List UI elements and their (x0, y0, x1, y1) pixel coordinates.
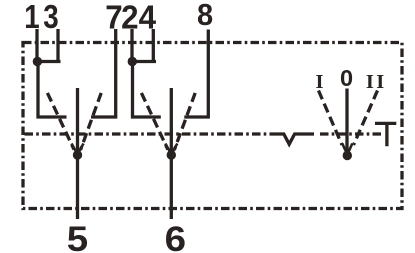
pole 1 movable contact position I (dashed) (47, 93, 74, 150)
pole 1 movable contact position II (dashed) (81, 93, 102, 150)
wire: pole 2 left fixed contact arm (133, 62, 161, 118)
actuator pivot dot (343, 151, 352, 160)
svg-text:6: 6 (165, 219, 186, 253)
detent symbol V-notch on coupling line (276, 134, 315, 144)
junction dot terminals 1-3 (33, 57, 42, 66)
svg-text:5: 5 (67, 219, 88, 253)
svg-text:I: I (316, 71, 324, 93)
terminal 4 lead (152, 29, 155, 63)
pole 1 pivot dot (73, 150, 82, 159)
wire: pole 1 movable contact to terminal 5 (76, 88, 79, 219)
svg-text:II: II (366, 71, 387, 93)
wire bridging terminals 1-3 (37, 60, 61, 63)
wire: pole 1 left fixed contact arm (38, 62, 67, 118)
wire: pole 2 movable contact to terminal 6 (170, 88, 173, 219)
actuator position II (dashed) (354, 91, 378, 146)
mechanical coupling line (dash-dot) right section (320, 132, 384, 135)
terminal 2 lead (130, 29, 133, 62)
wire bridging terminals 2-4 (132, 60, 156, 63)
pole 1 arrowhead barbs (72, 144, 84, 153)
svg-text:8: 8 (197, 0, 213, 32)
actuator lever (position 0) (345, 89, 348, 153)
terminal 8 lead and pole 2 right fixed contact arm (184, 30, 208, 118)
svg-text:4: 4 (139, 0, 157, 36)
svg-text:2: 2 (121, 0, 138, 36)
svg-text:7: 7 (105, 0, 122, 36)
mechanical coupling line (dash-dot) left section (25, 132, 276, 135)
actuator arrowhead barbs (342, 144, 352, 153)
pole 2 movable contact position I (dashed) (141, 93, 167, 150)
momentary-position T symbol (375, 123, 396, 146)
terminal 1 lead (35, 29, 38, 62)
terminal 3 lead (56, 29, 59, 63)
svg-text:1: 1 (24, 0, 39, 36)
junction dot terminals 2-4 (128, 57, 137, 66)
pole 2 arrowhead barbs (165, 144, 177, 153)
pole 2 movable contact position II (dashed) (174, 93, 195, 150)
terminal 7 lead and pole 1 right fixed contact arm (91, 29, 116, 117)
enclosure border (dash-dot frame) (23, 43, 402, 209)
pole 2 pivot dot (167, 150, 176, 159)
svg-text:0: 0 (340, 65, 353, 91)
svg-text:3: 3 (43, 0, 58, 36)
actuator position I (dashed) (319, 91, 343, 146)
